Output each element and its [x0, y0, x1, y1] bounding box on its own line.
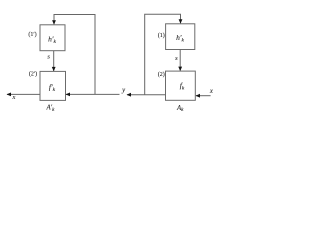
svg-text:x: x — [209, 88, 213, 95]
svg-text:(2′): (2′) — [29, 71, 37, 78]
arrowhead into h'k top — [52, 20, 56, 25]
wire s (right) — [179, 50, 181, 71]
wire s (left) — [53, 51, 55, 71]
block fk — [166, 71, 196, 100]
arrowhead into hk top — [179, 19, 183, 24]
arrowhead output x — [7, 93, 12, 97]
wire: right input x — [196, 95, 211, 97]
svg-text:(1′): (1′) — [28, 31, 36, 38]
wire: left output x — [7, 93, 40, 95]
arrowhead into f'k right — [66, 93, 71, 97]
arrowhead into f'k top — [52, 67, 56, 72]
arrowhead into fk right — [196, 94, 201, 98]
wire: right feedback (left vertical to hk top) — [145, 14, 181, 94]
svg-text:x: x — [12, 94, 16, 101]
block h'k — [40, 25, 65, 51]
arrowhead output y — [127, 93, 132, 97]
svg-text:(1): (1) — [158, 32, 165, 39]
wire: left feedback (top line to right vertical) — [54, 15, 95, 95]
block hk — [166, 24, 195, 50]
block f'k — [40, 71, 66, 100]
wire: right output y — [127, 94, 166, 96]
svg-text:(2): (2) — [158, 71, 165, 78]
wire: left input (open end to f'k right side) — [66, 93, 120, 95]
arrowhead into fk top — [178, 67, 182, 72]
